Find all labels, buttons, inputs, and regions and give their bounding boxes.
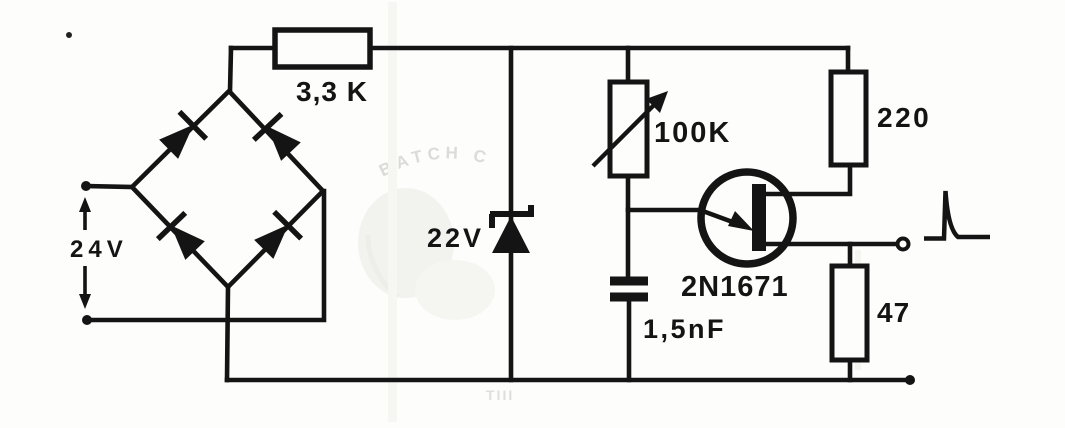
wire zener branch [509, 48, 514, 380]
24V double arrow [79, 197, 91, 309]
node bridge diamond [132, 91, 323, 287]
resistor R1 3,3K [275, 30, 370, 67]
wire emitter [628, 208, 703, 213]
svg-text:22V: 22V [427, 223, 484, 253]
resistor R3 47 [832, 266, 867, 360]
wire 100K bottom to capacitor [626, 176, 631, 276]
diode D4 bridge bottom-right [250, 211, 302, 263]
wire 220 top [846, 48, 851, 72]
wire top rail [231, 46, 848, 51]
resistor R2 220 [831, 72, 866, 165]
terminal 24V minus [82, 315, 92, 325]
wire 47 top [848, 244, 853, 266]
wire 24V- return to bridge right [87, 191, 324, 320]
wire 100K top [626, 48, 631, 82]
wire 47 bottom [848, 360, 853, 380]
wire bridge bottom to bottom rail [227, 287, 228, 380]
terminal 24V plus [81, 181, 91, 191]
zener diode Z1 22V [490, 205, 534, 253]
pulse waveform [924, 191, 990, 239]
svg-text:TIII: TIII [486, 387, 514, 403]
speck [66, 32, 72, 38]
svg-text:3,3 K: 3,3 K [296, 76, 368, 107]
wire bottom rail [227, 378, 910, 383]
svg-text:220: 220 [877, 102, 931, 133]
terminal output [898, 239, 909, 250]
diode D3 bridge bottom-left [157, 212, 209, 264]
svg-text:1,5nF: 1,5nF [643, 314, 726, 344]
svg-text:100K: 100K [654, 117, 731, 149]
svg-text:2N1671: 2N1671 [681, 271, 789, 303]
capacitor C1 1,5nF [610, 281, 648, 297]
transistor Q1 2N1671 UJT [701, 172, 793, 264]
potentiometer 100K [610, 82, 647, 176]
wire capacitor to bottom rail [627, 302, 632, 380]
diode D2 bridge top-right [253, 113, 305, 165]
wire base2 top lead [764, 165, 850, 194]
diode D1 bridge top-left [155, 111, 207, 163]
wire bridge top to rail [230, 48, 231, 91]
svg-text:47: 47 [877, 297, 910, 328]
svg-text:24V: 24V [70, 236, 128, 263]
wire base1 bottom lead to output [764, 242, 896, 247]
wire 24V+ to bridge left [86, 186, 132, 187]
terminal bottom right [905, 375, 915, 385]
